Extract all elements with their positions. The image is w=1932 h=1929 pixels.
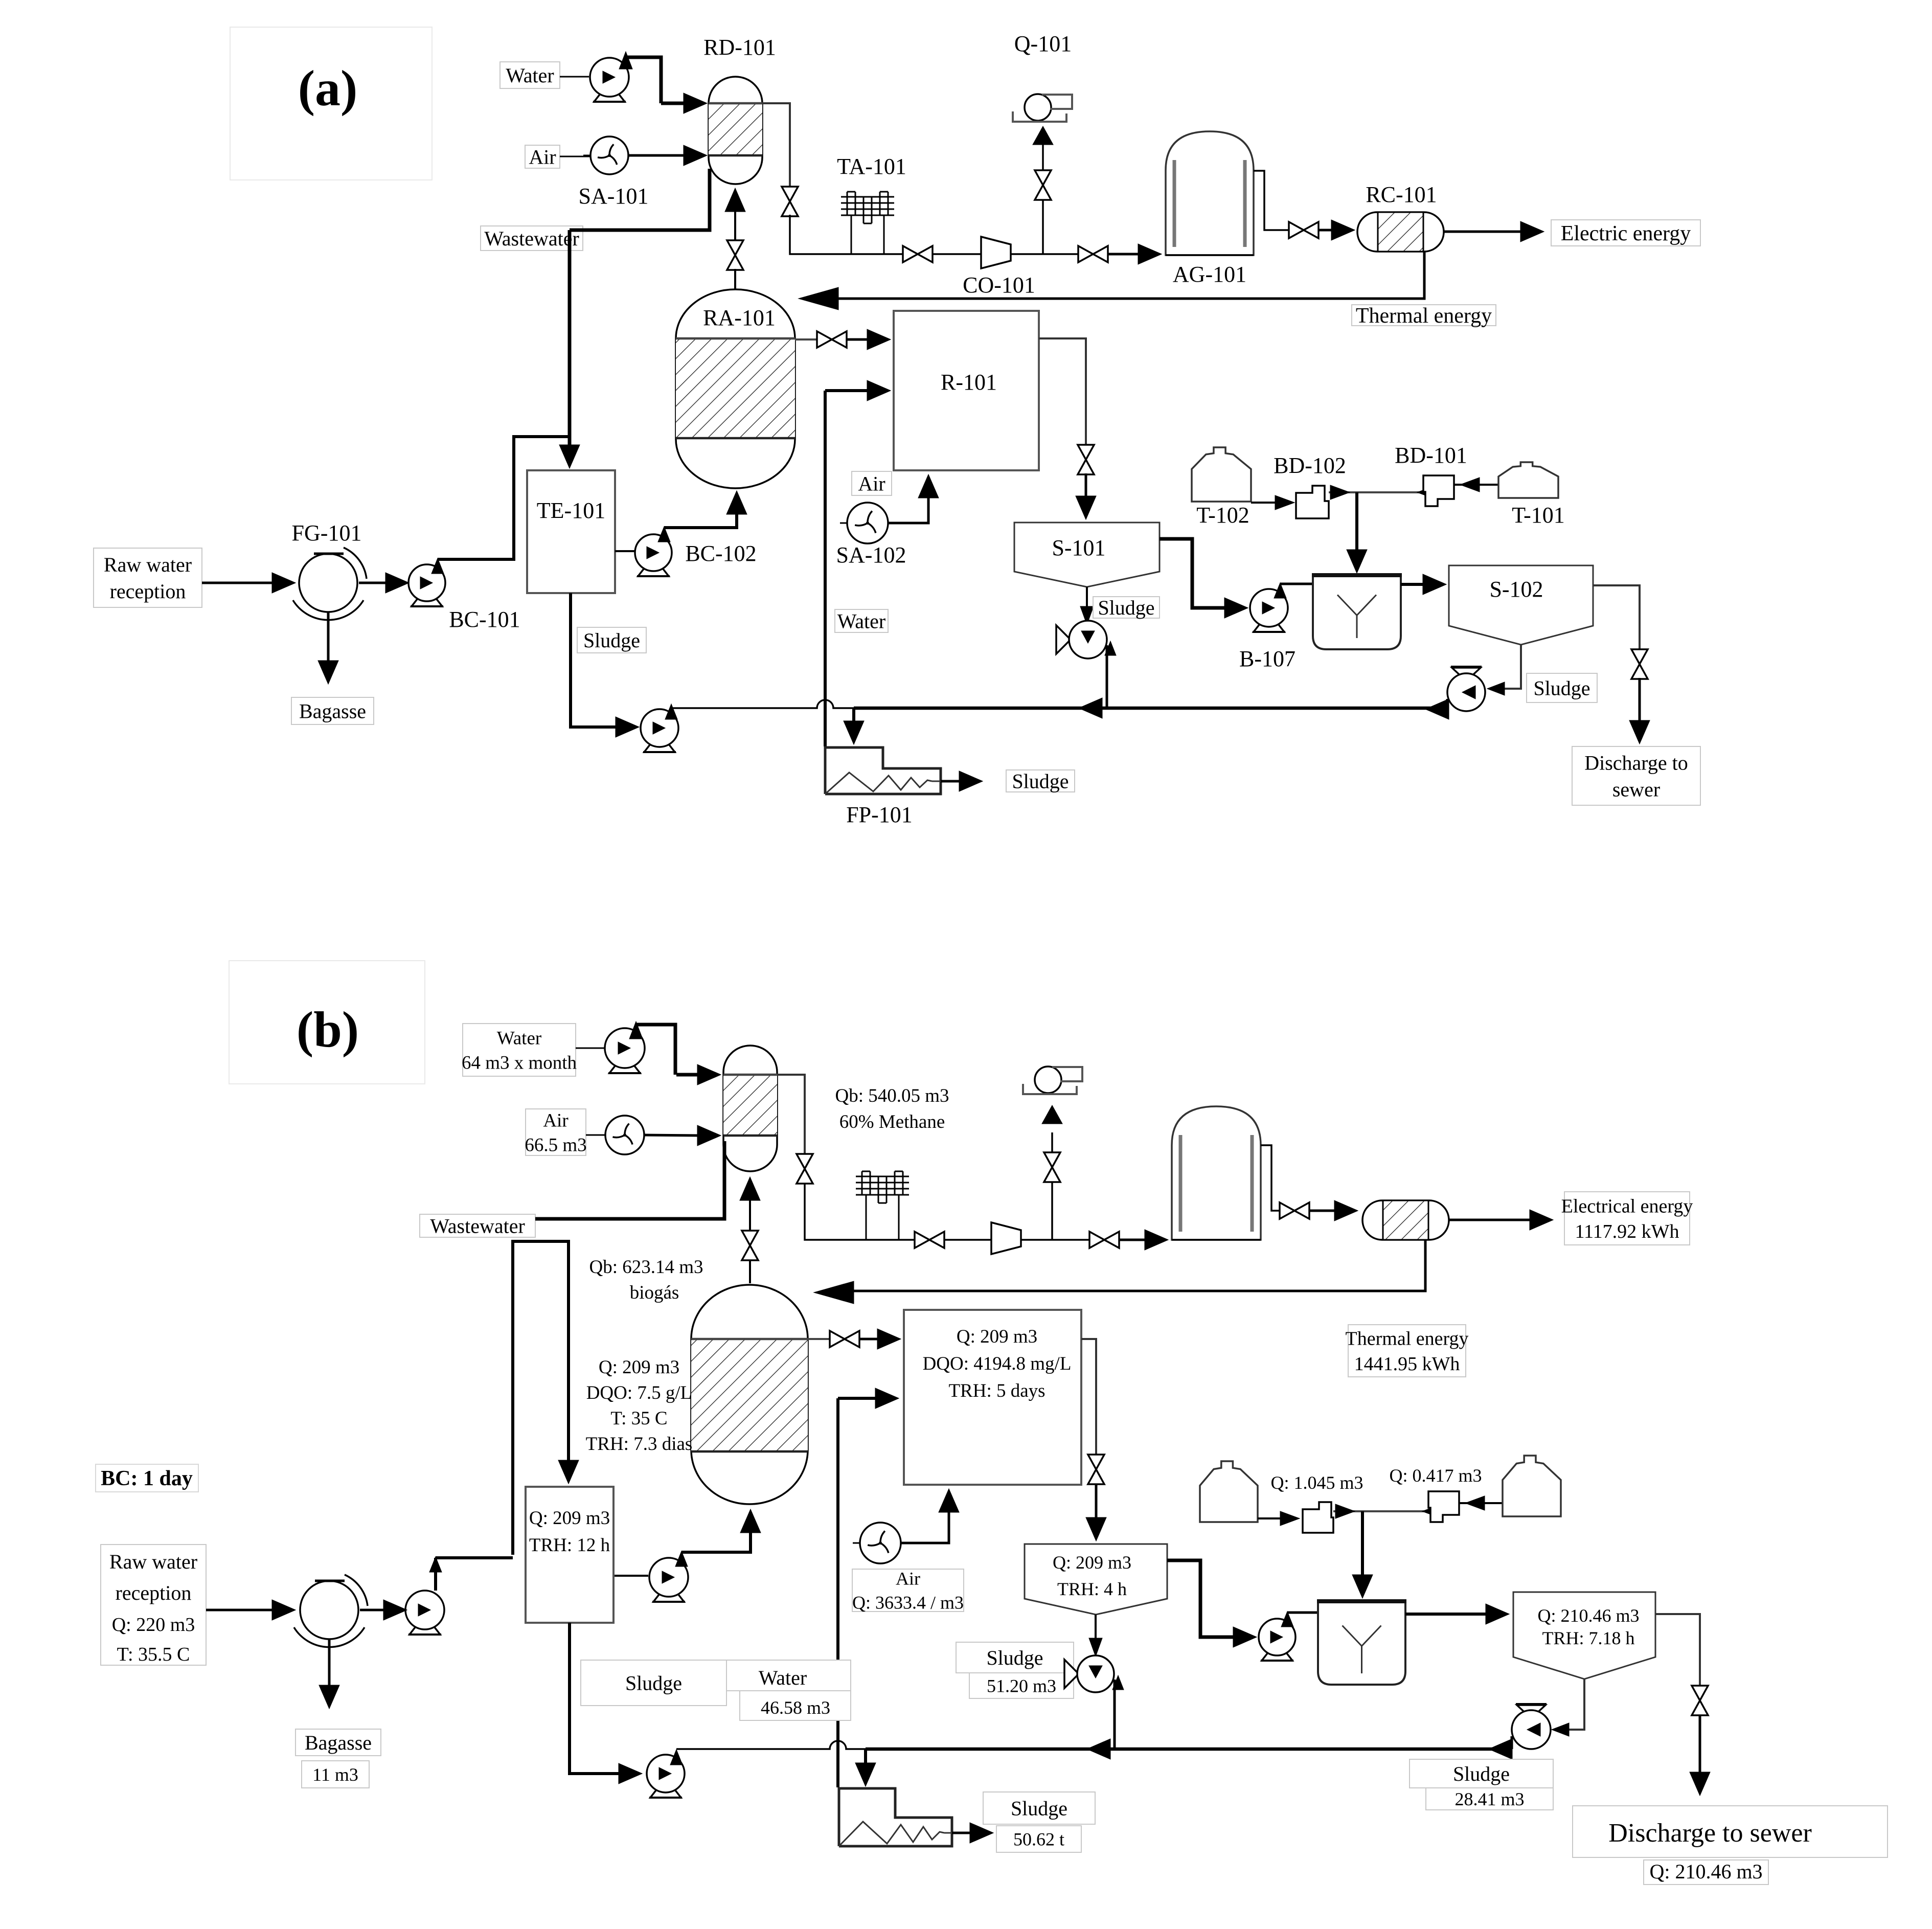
svg-text:T-102: T-102 <box>1196 503 1249 528</box>
svg-text:11 m3: 11 m3 <box>312 1764 358 1785</box>
svg-text:Water: Water <box>497 1028 541 1049</box>
svg-text:28.41 m3: 28.41 m3 <box>1454 1789 1524 1809</box>
svg-text:Thermal energy: Thermal energy <box>1356 304 1492 328</box>
svg-text:SA-101: SA-101 <box>579 184 649 209</box>
svg-text:B-107: B-107 <box>1239 646 1295 671</box>
svg-text:BC: 1 day: BC: 1 day <box>101 1467 193 1490</box>
svg-text:Air: Air <box>529 146 556 169</box>
svg-text:Q-101: Q-101 <box>1014 31 1072 56</box>
svg-text:Raw water: Raw water <box>104 553 192 576</box>
svg-text:(a): (a) <box>298 60 358 117</box>
svg-text:Sludge: Sludge <box>1098 596 1154 619</box>
svg-text:TA-101: TA-101 <box>837 154 906 179</box>
svg-text:Bagasse: Bagasse <box>299 700 366 723</box>
svg-text:DQO: 4194.8 mg/L: DQO: 4194.8 mg/L <box>923 1353 1072 1374</box>
svg-text:TRH: 4 h: TRH: 4 h <box>1057 1579 1127 1599</box>
svg-text:FP-101: FP-101 <box>846 802 913 827</box>
svg-text:Air: Air <box>896 1569 920 1589</box>
svg-text:Q: 209 m3: Q: 209 m3 <box>957 1326 1037 1347</box>
svg-text:sewer: sewer <box>1612 778 1660 801</box>
svg-text:TRH: 7.18 h: TRH: 7.18 h <box>1542 1628 1634 1648</box>
svg-text:Thermal energy: Thermal energy <box>1346 1328 1469 1350</box>
svg-text:FG-101: FG-101 <box>292 520 362 546</box>
svg-text:R-101: R-101 <box>941 370 997 395</box>
svg-text:Water: Water <box>506 64 554 87</box>
svg-text:Air: Air <box>858 472 885 495</box>
svg-text:DQO: 7.5 g/L: DQO: 7.5 g/L <box>586 1382 692 1403</box>
svg-text:Sludge: Sludge <box>583 629 640 652</box>
svg-text:BD-102: BD-102 <box>1274 453 1346 478</box>
svg-text:60% Methane: 60% Methane <box>839 1111 945 1132</box>
svg-text:RA-101: RA-101 <box>703 305 776 330</box>
svg-text:Sludge: Sludge <box>625 1672 682 1695</box>
svg-text:biogás: biogás <box>630 1282 679 1303</box>
svg-text:50.62 t: 50.62 t <box>1013 1829 1064 1850</box>
svg-text:Q: 0.417 m3: Q: 0.417 m3 <box>1389 1465 1482 1486</box>
svg-text:TRH: 12 h: TRH: 12 h <box>529 1535 610 1556</box>
svg-text:Sludge: Sludge <box>1011 1797 1067 1820</box>
svg-text:Water: Water <box>837 610 886 633</box>
svg-text:66.5 m3: 66.5 m3 <box>525 1135 586 1156</box>
svg-text:T-101: T-101 <box>1512 503 1565 528</box>
svg-text:Sludge: Sludge <box>1533 677 1590 700</box>
svg-text:SA-102: SA-102 <box>836 542 906 568</box>
svg-text:Water: Water <box>759 1666 807 1689</box>
svg-text:Q: 3633.4 / m3: Q: 3633.4 / m3 <box>852 1593 964 1613</box>
svg-text:Q: 210.46 m3: Q: 210.46 m3 <box>1649 1860 1762 1883</box>
svg-text:1117.92 kWh: 1117.92 kWh <box>1575 1221 1679 1242</box>
svg-text:Wastewater: Wastewater <box>430 1215 525 1238</box>
svg-text:Q: 210.46 m3: Q: 210.46 m3 <box>1537 1605 1639 1626</box>
svg-text:Discharge to sewer: Discharge to sewer <box>1608 1819 1812 1848</box>
svg-text:Electric energy: Electric energy <box>1561 222 1691 245</box>
svg-text:Air: Air <box>543 1110 568 1131</box>
svg-text:51.20 m3: 51.20 m3 <box>987 1676 1056 1696</box>
svg-text:BD-101: BD-101 <box>1395 443 1467 468</box>
svg-text:Sludge: Sludge <box>986 1646 1043 1669</box>
svg-text:Discharge to: Discharge to <box>1584 752 1688 775</box>
svg-text:46.58 m3: 46.58 m3 <box>761 1697 830 1718</box>
svg-text:Q: 209 m3: Q: 209 m3 <box>1053 1552 1131 1573</box>
svg-text:Raw water: Raw water <box>109 1550 197 1573</box>
svg-text:S-102: S-102 <box>1489 577 1543 602</box>
svg-text:Q: 220 m3: Q: 220 m3 <box>112 1614 195 1636</box>
svg-text:RD-101: RD-101 <box>703 35 776 60</box>
svg-text:Q: 209 m3: Q: 209 m3 <box>529 1508 610 1529</box>
svg-text:BC-102: BC-102 <box>685 541 756 566</box>
svg-text:Bagasse: Bagasse <box>305 1731 372 1754</box>
svg-text:reception: reception <box>116 1581 192 1604</box>
svg-text:Qb: 623.14 m3: Qb: 623.14 m3 <box>589 1257 703 1278</box>
svg-text:Wastewater: Wastewater <box>484 227 579 250</box>
svg-text:S-101: S-101 <box>1052 535 1105 560</box>
svg-text:Q: 209 m3: Q: 209 m3 <box>599 1357 679 1378</box>
svg-text:Qb: 540.05 m3: Qb: 540.05 m3 <box>835 1085 949 1106</box>
svg-text:AG-101: AG-101 <box>1173 262 1246 287</box>
svg-text:reception: reception <box>110 580 186 603</box>
svg-text:TE-101: TE-101 <box>537 498 605 523</box>
svg-text:1441.95 kWh: 1441.95 kWh <box>1354 1353 1460 1375</box>
svg-text:(b): (b) <box>297 1001 359 1058</box>
svg-text:T: 35.5 C: T: 35.5 C <box>117 1644 190 1665</box>
svg-text:Sludge: Sludge <box>1012 770 1069 793</box>
svg-text:Sludge: Sludge <box>1453 1762 1510 1785</box>
svg-text:TRH: 5 days: TRH: 5 days <box>948 1380 1045 1401</box>
svg-text:CO-101: CO-101 <box>963 273 1035 298</box>
svg-text:Q: 1.045 m3: Q: 1.045 m3 <box>1270 1472 1363 1493</box>
svg-text:TRH: 7.3 dias: TRH: 7.3 dias <box>586 1434 693 1455</box>
svg-text:Electrical energy: Electrical energy <box>1561 1196 1693 1217</box>
svg-text:RC-101: RC-101 <box>1366 182 1437 207</box>
svg-text:BC-101: BC-101 <box>449 607 520 632</box>
svg-text:64 m3 x month: 64 m3 x month <box>462 1053 577 1074</box>
svg-text:T: 35 C: T: 35 C <box>610 1408 667 1429</box>
